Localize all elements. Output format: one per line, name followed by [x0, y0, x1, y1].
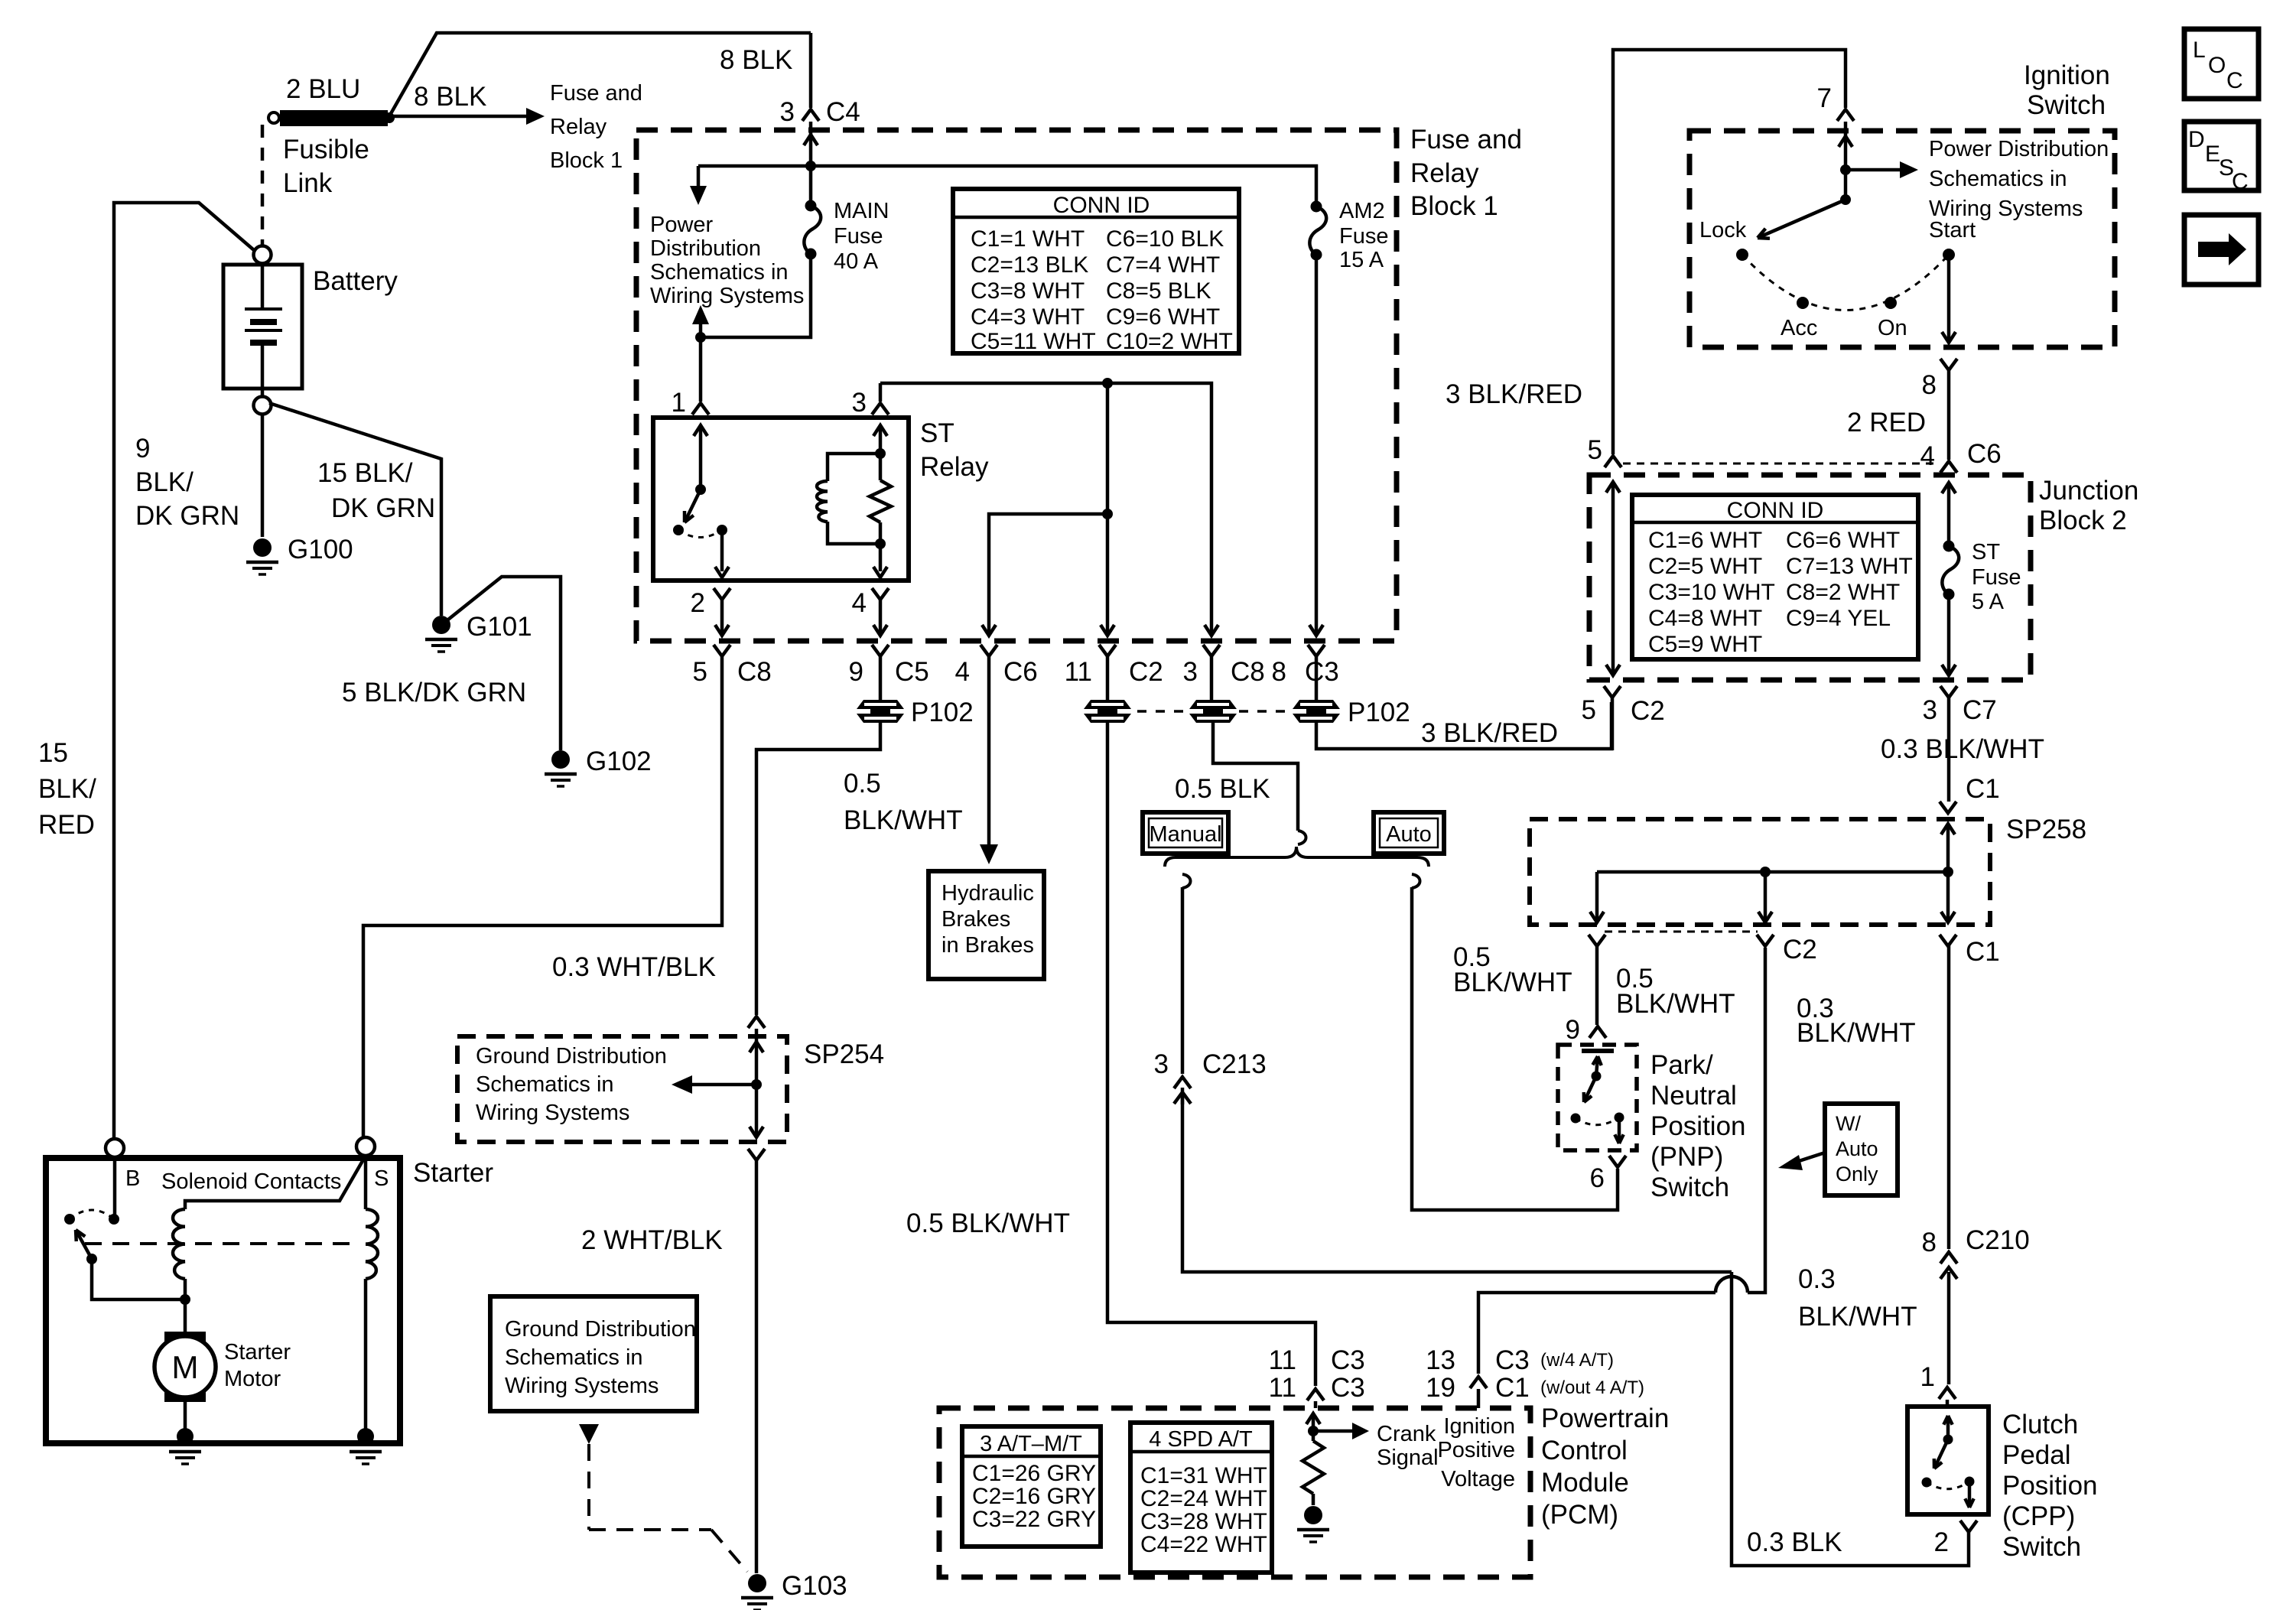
svg-text:G101: G101: [467, 612, 532, 642]
svg-text:15: 15: [38, 738, 68, 768]
svg-text:C2: C2: [1129, 657, 1163, 687]
wire: 8 C3 to P102: [1315, 656, 1319, 700]
svg-text:C10=2 WHT: C10=2 WHT: [1106, 329, 1233, 354]
svg-text:Switch: Switch: [1650, 1173, 1729, 1202]
splice SP258 dashed box: [1530, 819, 1990, 925]
crank signal pointer arrow: [1313, 1429, 1352, 1433]
svg-text:8 BLK: 8 BLK: [414, 82, 486, 112]
fuse ST Fuse 5 A: [1943, 541, 1955, 552]
PNP output arrow down: [1618, 1117, 1621, 1143]
svg-text:Junction: Junction: [2039, 476, 2138, 506]
svg-text:C4=8 WHT: C4=8 WHT: [1648, 606, 1762, 631]
svg-text:C7: C7: [1963, 695, 1997, 725]
relay resistor zigzag: [879, 454, 883, 480]
svg-text:Wiring Systems: Wiring Systems: [505, 1374, 659, 1398]
Fuse and Relay Block 1 CONN ID table box: [953, 189, 1239, 353]
wire: 3 BLK/RED run to junction block 5 C2: [1316, 702, 1611, 749]
svg-text:11: 11: [1269, 1345, 1296, 1375]
svg-text:4: 4: [852, 588, 867, 618]
node: motor feed junction: [180, 1294, 190, 1305]
node: SP258 junction right: [1943, 867, 1953, 877]
wire: MAIN fuse to ST relay pin 1: [701, 254, 811, 337]
wire: SP258 to PNP pin 9: [1595, 946, 1599, 1025]
svg-text:Position: Position: [1650, 1111, 1746, 1141]
svg-text:Distribution: Distribution: [650, 236, 761, 261]
wire: pin 5 through junction block: [1611, 482, 1615, 672]
wire: AM2 fuse to block edge: [1315, 255, 1319, 635]
wire: 3 C7 down (0.3 BLK/WHT): [1947, 698, 1951, 802]
svg-text:Schematics in: Schematics in: [1929, 167, 2067, 191]
ignition detent dotted arc: [1742, 255, 1949, 311]
svg-text:9: 9: [135, 434, 150, 463]
svg-text:Park/: Park/: [1650, 1050, 1713, 1080]
relay switch contact left: [673, 525, 684, 535]
svg-text:9: 9: [1566, 1015, 1580, 1045]
wire: G101 junction to G102: [448, 577, 561, 750]
svg-text:C6=10 BLK: C6=10 BLK: [1106, 226, 1224, 252]
svg-text:Schematics in: Schematics in: [476, 1072, 614, 1097]
svg-text:Fuse: Fuse: [834, 224, 883, 249]
svg-text:3: 3: [1154, 1049, 1169, 1079]
node: coil/resistor top junction: [875, 448, 886, 459]
svg-text:in Brakes: in Brakes: [941, 933, 1034, 958]
ignition start output chevron: [1940, 359, 1957, 370]
relay switch movable arm: [685, 490, 701, 522]
svg-text:Fuse: Fuse: [1339, 224, 1388, 249]
svg-text:C4: C4: [826, 97, 860, 127]
svg-text:13: 13: [1426, 1345, 1455, 1375]
wire: 5 C2 stub: [1611, 698, 1615, 750]
relay switch common feed arrow: [699, 425, 703, 490]
svg-text:Switch: Switch: [2002, 1532, 2081, 1562]
svg-text:7: 7: [1817, 83, 1832, 113]
wire squiggle at brace feed: [1298, 831, 1306, 844]
thin dashed connector line (junction block top): [1623, 463, 1940, 465]
wire: battery - to G100: [261, 414, 265, 537]
node: ignition rotor pivot: [1840, 194, 1851, 205]
svg-text:D: D: [2188, 127, 2205, 152]
wire: C213 run down to CPP pin 2 (0.3 BLK): [1732, 1272, 1969, 1566]
SP258 exit chevrons: [1589, 935, 1605, 946]
svg-text:AM2: AM2: [1339, 199, 1385, 223]
starter motor M: [165, 1332, 205, 1401]
ignition On contact: [1885, 297, 1897, 309]
svg-text:C8: C8: [737, 657, 772, 687]
SP254 pointer arrow to note: [692, 1083, 756, 1087]
wire: dashed lead fusible link to battery +: [261, 125, 265, 246]
brace over manual/auto split: [1165, 847, 1429, 867]
svg-text:C2: C2: [1631, 696, 1665, 726]
svg-text:Manual: Manual: [1149, 822, 1221, 847]
ignition pointer arrow to power distribution note: [1846, 168, 1900, 172]
CPP arm arrow: [1934, 1439, 1948, 1469]
wire: auto branch down to PNP pin 6 return: [1412, 887, 1618, 1210]
svg-text:9: 9: [849, 657, 863, 687]
starter pull-in coil: [173, 1209, 185, 1279]
wire: 19 C1 riser to SP258 C2 run: [1478, 1293, 1715, 1374]
svg-text:C8: C8: [1231, 657, 1265, 687]
svg-text:Brakes: Brakes: [941, 907, 1010, 932]
svg-text:C8=5 BLK: C8=5 BLK: [1106, 278, 1211, 304]
wire: branch arrow up to power distribution: [699, 324, 703, 337]
svg-text:C: C: [2226, 68, 2243, 93]
splice SP254 dashed box: [457, 1036, 787, 1142]
connector 13 C3 / 19 C1 chevron at PCM: [1470, 1377, 1487, 1388]
svg-text:3: 3: [1923, 695, 1937, 725]
wire: junction to starter motor: [184, 1299, 187, 1332]
svg-text:C3=10 WHT: C3=10 WHT: [1648, 580, 1775, 605]
svg-text:5 A: 5 A: [1972, 590, 2005, 614]
svg-text:0.5 BLK/WHT: 0.5 BLK/WHT: [906, 1208, 1070, 1238]
svg-text:Neutral: Neutral: [1650, 1081, 1737, 1111]
svg-text:C1: C1: [1966, 774, 2000, 804]
svg-text:5: 5: [693, 657, 707, 687]
svg-text:2 BLU: 2 BLU: [286, 74, 360, 104]
svg-text:Wiring Systems: Wiring Systems: [650, 284, 804, 308]
svg-text:3: 3: [852, 388, 867, 418]
svg-text:3 BLK/RED: 3 BLK/RED: [1421, 718, 1558, 748]
svg-text:MAIN: MAIN: [834, 199, 889, 223]
svg-text:CONN ID: CONN ID: [1053, 193, 1150, 218]
svg-text:C5=11 WHT: C5=11 WHT: [971, 329, 1096, 354]
pass-through P102 (middle-left): [1084, 700, 1131, 709]
wire: SP258 left leg: [1595, 872, 1599, 920]
wire: SP258 right leg: [1946, 872, 1950, 920]
svg-text:P102: P102: [1348, 698, 1410, 727]
starter hold-in coil: [366, 1209, 378, 1279]
svg-text:C6=6 WHT: C6=6 WHT: [1786, 528, 1900, 553]
svg-text:Fusible: Fusible: [283, 135, 369, 164]
svg-text:Only: Only: [1836, 1163, 1878, 1186]
svg-text:Clutch: Clutch: [2002, 1410, 2078, 1439]
PNP common arrow up: [1596, 1056, 1598, 1076]
wire: ST fuse to block bottom: [1947, 594, 1951, 672]
connector C3 pin 8 chevron: [1308, 645, 1325, 656]
crank signal feed arrow inside PCM: [1312, 1413, 1315, 1431]
legend arrow box: [2184, 215, 2259, 285]
PCM table 3 A/T-M/T box: [962, 1426, 1101, 1547]
ground G100: [253, 538, 272, 557]
relay coil feed arrow inside box: [879, 425, 883, 454]
svg-text:5: 5: [1588, 435, 1602, 465]
svg-text:C6: C6: [1003, 657, 1038, 687]
svg-text:W/: W/: [1836, 1112, 1861, 1135]
svg-text:(PNP): (PNP): [1650, 1142, 1723, 1172]
connector C213 pin 3 double chevron: [1174, 1077, 1191, 1088]
svg-text:On: On: [1878, 316, 1907, 340]
pass-through P102 (right): [1293, 700, 1340, 709]
crank pull-down resistor: [1312, 1431, 1315, 1441]
wire: 11 C2 drop from bus: [1106, 514, 1110, 635]
svg-text:11: 11: [1065, 657, 1092, 687]
svg-text:Signal: Signal: [1377, 1446, 1439, 1470]
svg-text:BLK/WHT: BLK/WHT: [1797, 1018, 1916, 1048]
pass-through P102 (middle-right): [1189, 700, 1237, 709]
svg-text:C3=28 WHT: C3=28 WHT: [1140, 1509, 1267, 1534]
PNP contact right: [1615, 1113, 1624, 1123]
wire: hold-in coil to case ground: [364, 1279, 368, 1436]
wire: 8 BLK arrow to Fuse and Relay Block 1: [389, 115, 526, 119]
Powertrain Control Module dashed boundary: [939, 1408, 1530, 1577]
svg-text:O: O: [2208, 53, 2226, 78]
svg-text:Hydraulic: Hydraulic: [941, 881, 1034, 906]
wire: switched bus to 3 C8 drop: [880, 383, 1211, 635]
svg-text:Acc: Acc: [1781, 316, 1817, 340]
node: ignition feed junction: [1840, 164, 1851, 175]
svg-text:0.3: 0.3: [1798, 1264, 1836, 1294]
svg-text:CONN ID: CONN ID: [1727, 498, 1824, 523]
svg-text:Ignition: Ignition: [2024, 60, 2110, 90]
svg-text:Start: Start: [1929, 218, 1976, 242]
svg-text:Starter: Starter: [224, 1340, 291, 1364]
svg-text:3: 3: [1183, 657, 1198, 687]
starter arm pivot dot: [86, 1254, 97, 1264]
wire: coil return to pin 4: [879, 544, 883, 571]
wire: 11 C2 long drop to PCM crank input: [1107, 723, 1315, 1386]
ground G103: [748, 1574, 766, 1592]
svg-text:P102: P102: [911, 698, 974, 727]
wire: B terminal to contact: [113, 1157, 117, 1219]
ignition Start contact: [1943, 249, 1955, 261]
svg-text:Ignition: Ignition: [1443, 1414, 1515, 1439]
note box pointer triangle: [579, 1424, 599, 1444]
wire: pin2 to block edge: [720, 600, 724, 633]
CPP output arrow down: [1968, 1482, 1972, 1508]
svg-text:Powertrain: Powertrain: [1541, 1403, 1669, 1433]
node: fusible link output junction: [384, 112, 395, 123]
svg-text:Wiring Systems: Wiring Systems: [476, 1101, 629, 1125]
svg-text:0.3 BLK/WHT: 0.3 BLK/WHT: [1881, 734, 2044, 764]
wire: 8 BLK into block via C4: [809, 33, 813, 108]
ground: crank resistor ground: [1304, 1506, 1322, 1524]
svg-text:Motor: Motor: [224, 1367, 281, 1391]
svg-text:4: 4: [1920, 441, 1935, 471]
svg-text:C3=8 WHT: C3=8 WHT: [971, 278, 1085, 304]
legend arrow glyph: [2198, 242, 2229, 257]
wire: fusible link to 8 BLK feed riser: [389, 33, 811, 116]
Clutch Pedal Position switch box: [1907, 1407, 1989, 1514]
svg-text:4 SPD A/T: 4 SPD A/T: [1149, 1427, 1253, 1452]
svg-text:M: M: [172, 1349, 199, 1385]
svg-text:15 BLK/: 15 BLK/: [317, 458, 413, 488]
fuse AM2 Fuse 15 A: [1311, 201, 1322, 213]
svg-text:E: E: [2205, 141, 2220, 167]
wire squiggle auto branch: [1412, 874, 1420, 888]
svg-text:8: 8: [1922, 370, 1937, 400]
PNP pivot dot: [1592, 1072, 1602, 1081]
svg-text:Relay: Relay: [550, 115, 607, 139]
wire: battery - to G101 drop: [269, 403, 441, 616]
wire: junction block 5 riser to ignition pin 7: [1613, 50, 1846, 454]
CPP pin 1 chevron: [1939, 1387, 1956, 1399]
CPP contact right: [1965, 1477, 1975, 1487]
connector C2 pin 11 chevron: [1099, 645, 1116, 656]
svg-text:C1=1 WHT: C1=1 WHT: [971, 226, 1085, 252]
starter terminal B circle: [106, 1139, 124, 1157]
thin dashed connector line (SP258): [1605, 931, 1758, 933]
CPP pin 2 chevron: [1960, 1521, 1977, 1532]
ground G102: [551, 750, 570, 769]
svg-text:BLK/WHT: BLK/WHT: [844, 805, 963, 835]
Park/Neutral Position switch dashed box: [1558, 1045, 1637, 1150]
svg-text:C9=6 WHT: C9=6 WHT: [1106, 304, 1220, 330]
ignition Lock contact: [1736, 249, 1748, 261]
svg-text:C9=4 YEL: C9=4 YEL: [1786, 606, 1891, 631]
svg-text:G100: G100: [288, 535, 353, 564]
node: SP254 junction: [751, 1079, 762, 1090]
wire: C1 into SP258: [1946, 824, 1950, 872]
svg-text:3: 3: [780, 97, 795, 127]
svg-text:S: S: [374, 1166, 389, 1191]
svg-text:C2=24 WHT: C2=24 WHT: [1140, 1486, 1267, 1511]
node: coil/resistor bottom junction: [875, 538, 886, 549]
svg-text:C213: C213: [1202, 1049, 1267, 1079]
svg-text:19: 19: [1426, 1373, 1455, 1403]
wire: C210 to CPP pin 1: [1947, 1272, 1951, 1384]
PNP fixed contact bar: [1582, 1049, 1614, 1053]
wire: relay pin 3 riser to bus: [879, 383, 883, 402]
svg-text:(PCM): (PCM): [1541, 1500, 1618, 1530]
svg-text:C3=22 GRY: C3=22 GRY: [972, 1507, 1096, 1532]
svg-text:2 WHT/BLK: 2 WHT/BLK: [581, 1225, 723, 1255]
svg-text:DK GRN: DK GRN: [135, 501, 239, 531]
svg-text:C5=9 WHT: C5=9 WHT: [1648, 632, 1762, 657]
svg-text:C3: C3: [1305, 657, 1339, 687]
svg-text:C7=13 WHT: C7=13 WHT: [1786, 554, 1913, 579]
svg-text:SP258: SP258: [2006, 815, 2086, 844]
svg-text:Position: Position: [2002, 1471, 2098, 1501]
starter contact left dot: [64, 1214, 75, 1225]
svg-text:BLK/: BLK/: [38, 774, 96, 804]
svg-text:6: 6: [1590, 1163, 1605, 1193]
svg-text:40 A: 40 A: [834, 249, 879, 274]
wire: junction down to relay pin 1: [699, 337, 703, 402]
svg-text:C1=6 WHT: C1=6 WHT: [1648, 528, 1762, 553]
svg-text:DK GRN: DK GRN: [331, 493, 435, 523]
connector C210 pin 8 double chevron: [1940, 1252, 1957, 1264]
svg-text:Pedal: Pedal: [2002, 1440, 2071, 1470]
W/Auto Only pointer arrow: [1797, 1153, 1825, 1162]
CPP common arrow up: [1946, 1416, 1950, 1439]
svg-text:Positive: Positive: [1437, 1438, 1515, 1462]
wire: S terminal to hold-in coil: [364, 1156, 368, 1209]
connector C6 pin 4 drop: [1102, 378, 1113, 389]
starter contact right dot: [109, 1214, 119, 1225]
wire: SP254 exit: [755, 1085, 759, 1134]
battery positive terminal circle: [254, 246, 272, 264]
wire squiggle manual branch: [1182, 874, 1191, 888]
wire hop over 0.3 BLK drop: [1715, 1277, 1748, 1293]
svg-text:G102: G102: [586, 746, 652, 776]
connector C7 pin 3 chevron: [1940, 686, 1957, 698]
connector C2 pin 5 exit chevron: [1604, 686, 1621, 698]
svg-text:8 BLK: 8 BLK: [720, 45, 792, 75]
wire: into SP254: [755, 1029, 759, 1085]
wire: 3 C8 chevron: [1203, 645, 1220, 656]
wire: S terminal pointer to pull-in coil: [185, 1156, 366, 1209]
wire: 2 WHT/BLK to G103: [755, 1160, 759, 1573]
svg-text:Schematics in: Schematics in: [505, 1345, 643, 1370]
svg-text:0.3 WHT/BLK: 0.3 WHT/BLK: [552, 952, 716, 982]
svg-text:Block 1: Block 1: [550, 148, 623, 173]
svg-text:Solenoid Contacts: Solenoid Contacts: [161, 1169, 341, 1194]
splice SP254 chevron above: [748, 1016, 765, 1028]
wire: SP258 middle leg: [1764, 872, 1768, 920]
svg-text:BLK/: BLK/: [135, 467, 194, 497]
CPP dotted throw arc: [1927, 1482, 1969, 1489]
svg-text:C6: C6: [1967, 439, 2002, 469]
CPP contact left: [1922, 1478, 1932, 1488]
svg-text:Relay: Relay: [920, 452, 989, 482]
svg-text:C5: C5: [895, 657, 929, 687]
connector C8 pin 5 chevron: [714, 645, 730, 656]
svg-text:C2: C2: [1783, 935, 1817, 964]
svg-text:1: 1: [1920, 1362, 1935, 1392]
PNP pin 6 chevron: [1609, 1156, 1626, 1167]
ignition rotor arm to Lock: [1758, 200, 1846, 238]
connector 11 C3 chevron at PCM: [1307, 1389, 1324, 1400]
connector C1 chevron above SP258: [1940, 802, 1956, 813]
svg-text:Power Distribution: Power Distribution: [1929, 137, 2109, 161]
wire: 2 RED to junction block C6: [1947, 370, 1951, 460]
wire: relay contact to pin 2: [720, 530, 724, 571]
svg-text:(w/out 4 A/T): (w/out 4 A/T): [1540, 1377, 1644, 1398]
wire: pin 7 into switch: [1844, 122, 1848, 170]
svg-text:2: 2: [691, 588, 705, 618]
fusible link F1 open-circle terminal: [268, 112, 279, 123]
svg-text:C: C: [2232, 169, 2249, 194]
svg-text:C1=26 GRY: C1=26 GRY: [972, 1461, 1096, 1486]
relay pin 2 chevron: [714, 588, 730, 600]
ignition Acc contact: [1797, 297, 1809, 309]
battery internal cells: [261, 263, 265, 308]
svg-text:3 BLK/RED: 3 BLK/RED: [1446, 379, 1582, 409]
Auto callout box: [1374, 812, 1444, 854]
wire: Start contact down out of switch: [1947, 255, 1951, 340]
relay switch contact right (pin 2): [717, 525, 727, 535]
svg-text:C7=4 WHT: C7=4 WHT: [1106, 252, 1220, 278]
svg-text:Fuse: Fuse: [1972, 565, 2021, 590]
PNP contact left: [1571, 1114, 1581, 1124]
svg-text:RED: RED: [38, 810, 95, 840]
svg-text:Fuse and: Fuse and: [1410, 125, 1522, 154]
node: relay switch pivot: [695, 484, 706, 495]
svg-text:C3: C3: [1495, 1345, 1530, 1375]
svg-text:C2=5 WHT: C2=5 WHT: [1648, 554, 1762, 579]
svg-text:C1: C1: [1966, 937, 2000, 967]
wire: 5 C8 down-left to starter S: [363, 656, 722, 1139]
legend DESC box: [2184, 122, 2259, 190]
relay switch dotted throw arc: [678, 530, 722, 538]
svg-text:Block 1: Block 1: [1410, 191, 1498, 221]
svg-text:Relay: Relay: [1410, 158, 1479, 188]
svg-text:C8=2 WHT: C8=2 WHT: [1786, 580, 1900, 605]
svg-text:L: L: [2193, 37, 2206, 63]
svg-text:C1=31 WHT: C1=31 WHT: [1140, 1463, 1267, 1488]
svg-text:C210: C210: [1966, 1225, 2030, 1255]
svg-text:0.5: 0.5: [844, 769, 881, 798]
svg-text:(CPP): (CPP): [2002, 1501, 2075, 1531]
svg-text:C4=3 WHT: C4=3 WHT: [971, 304, 1085, 330]
svg-text:Crank: Crank: [1377, 1422, 1436, 1446]
svg-text:G103: G103: [782, 1571, 847, 1601]
svg-text:11: 11: [1269, 1373, 1296, 1403]
svg-text:Control: Control: [1541, 1436, 1628, 1465]
Ground Distribution note box (solid): [490, 1296, 697, 1411]
Manual callout box: [1143, 812, 1228, 854]
node: SP258 junction middle: [1760, 867, 1771, 877]
svg-text:Battery: Battery: [313, 266, 398, 296]
